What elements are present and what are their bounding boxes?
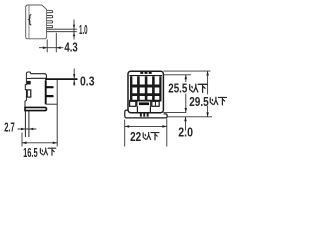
- dimension 1.0 upper arrow: [73, 25, 75, 29]
- extension line case bottom: [163, 111, 186, 113]
- dimension 22 left arrow: [125, 125, 130, 128]
- bottom view: downward pin left edge: [24, 111, 26, 137]
- front view: foot 2: [143, 113, 145, 116]
- extension line top B: [163, 74, 191, 76]
- front view: inner left bar: [130, 76, 132, 100]
- front view: bottom tab left edge: [136, 106, 138, 112]
- svg-text:0.3: 0.3: [80, 74, 95, 89]
- front view: case outline: [128, 71, 163, 113]
- dimension 29.5 bottom arrow: [206, 112, 209, 116]
- bottom view: column top-right edge: [29, 72, 31, 74]
- bottom view: dark slot: [27, 81, 31, 85]
- dimension 4.3 right arrow: [56, 46, 60, 49]
- bottom view: bottom bold tab: [25, 107, 47, 110]
- dimension label 29.5 kanji: [210, 97, 226, 105]
- dimension 29.5 line lower: [207, 106, 209, 117]
- dimension 22 right arrow: [162, 125, 167, 128]
- svg-text:2.0: 2.0: [178, 125, 193, 140]
- front view: divider row bottom: [129, 100, 161, 102]
- front view: black dash marking: [139, 102, 149, 105]
- dimension 25.5 bottom arrow: [185, 108, 188, 112]
- front view: rib 1: [137, 76, 140, 100]
- pin 2: [47, 16, 53, 18]
- dimension 16.5 line: [22, 142, 57, 144]
- dimension 16.5 extension line left: [21, 133, 23, 147]
- dimension label 16.5 kanji: [40, 148, 55, 155]
- front view: center cell left edge: [136, 101, 138, 107]
- dimension 0.3 lower arrow: [73, 80, 75, 84]
- dimension 29.5 top arrow: [206, 71, 209, 75]
- extension line top A: [163, 70, 210, 72]
- dimension 1.0 line: [73, 20, 75, 40]
- front view: top vent slot 2: [145, 71, 148, 74]
- bottom view: tab holder outline: [31, 74, 47, 79]
- dimension 16.5 left arrow: [22, 142, 27, 145]
- dimension 1.0 lower arrow: [73, 32, 75, 36]
- front view: lower left box: [130, 101, 136, 106]
- dimension 29.5 line upper: [207, 71, 209, 94]
- bottom view: open slot: [27, 90, 31, 97]
- front view: top vent slot 1: [140, 71, 143, 74]
- dimension 2.7 right arrow: [29, 128, 33, 131]
- front view: bottom tab right edge: [149, 106, 151, 112]
- dimension 22 extension line right: [166, 119, 168, 147]
- bottom view: downward pin right edge: [28, 111, 30, 137]
- svg-text:2.7: 2.7: [4, 120, 15, 135]
- long terminal pin bottom line: [47, 31, 77, 33]
- svg-text:25.5: 25.5: [168, 81, 187, 96]
- dimension 22 line: [125, 125, 167, 127]
- front view: lower right box: [152, 101, 159, 106]
- svg-text:29.5: 29.5: [189, 94, 209, 109]
- dimension 2.7 line: [18, 128, 37, 130]
- relay side view: latch brace: [29, 15, 31, 26]
- front view: inner top line: [129, 75, 162, 77]
- svg-text:22: 22: [130, 129, 141, 144]
- long terminal pin top line: [47, 28, 77, 30]
- dimension 25.5 top arrow: [185, 75, 188, 79]
- extension line base bottom: [167, 116, 212, 118]
- dimension 4.3 extension line left: [46, 39, 48, 52]
- dimension 16.5 right arrow: [53, 142, 58, 145]
- front view: foot 3: [147, 113, 149, 116]
- front view: foot 1: [140, 113, 142, 116]
- dimension label 22 kanji: [143, 132, 159, 139]
- bottom view: column slot line: [26, 78, 31, 80]
- dimension 25.5 line lower: [185, 94, 187, 113]
- relay side view: inner left edge line: [28, 5, 30, 38]
- bottom view: right extension line x57: [56, 80, 58, 147]
- bottom view: bold vertical edge: [45, 80, 47, 104]
- bottom view: bottom thin edge: [46, 103, 58, 105]
- pin 1: [47, 11, 53, 13]
- bottom view: metal tab 0.3 line: [46, 78, 77, 80]
- svg-text:4.3: 4.3: [64, 40, 77, 55]
- relay side view: body outline: [26, 5, 47, 39]
- front view: divider band 1: [130, 85, 161, 88]
- pin 3: [47, 21, 53, 23]
- front view: lower right box divider: [154, 101, 156, 106]
- svg-text:1.0: 1.0: [79, 22, 88, 37]
- front view: inner right bar: [159, 76, 161, 100]
- front view: top vent slot 3: [149, 71, 152, 74]
- dimension 0.3 upper arrow: [73, 74, 75, 78]
- dimension 25.5 line upper: [185, 75, 187, 82]
- dimension 2.0 arrow line: [185, 117, 187, 131]
- front view: socket base outline: [125, 110, 167, 118]
- front view: center cell right edge: [150, 101, 152, 107]
- front view: rib 2: [145, 76, 148, 100]
- dimension 4.3 extension line right: [55, 33, 57, 53]
- bottom view: right tab 2: [47, 95, 53, 97]
- front view: divider band 2: [130, 93, 161, 96]
- dimension 4.3 line: [39, 47, 63, 49]
- pin 4: [47, 26, 53, 28]
- svg-text:16.5: 16.5: [23, 145, 38, 160]
- dimension 22 extension line left: [124, 120, 126, 147]
- dimension 4.3 left arrow: [43, 46, 47, 49]
- dimension 2.0 up arrow: [184, 117, 187, 121]
- bottom view: right tab 1: [47, 86, 53, 88]
- dimension label 25.5 kanji: [190, 84, 207, 92]
- dimension 0.3 line: [73, 69, 75, 86]
- bottom view: case left column outline: [25, 72, 30, 107]
- dimension 2.7 left arrow: [21, 128, 25, 131]
- front view: rib 3: [152, 76, 155, 100]
